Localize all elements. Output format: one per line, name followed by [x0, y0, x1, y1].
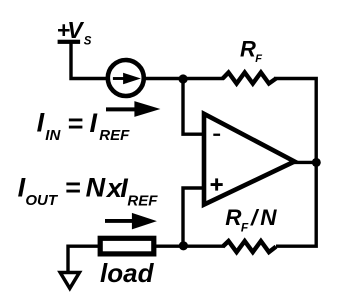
- wire: noninverting input to node B: [183, 188, 204, 246]
- wire: RF to right column corner: [274, 79, 316, 163]
- svg-text:I: I: [18, 173, 26, 203]
- op-amp plus sign: [211, 178, 223, 190]
- svg-text:REF: REF: [99, 127, 130, 144]
- svg-text:I: I: [37, 108, 45, 138]
- svg-text:N: N: [86, 172, 106, 202]
- resistor RF/N: [223, 241, 276, 252]
- +Vs supply bar: [58, 40, 81, 44]
- IOUT current arrow: [105, 213, 157, 230]
- wire: node A down to inverting input: [183, 79, 204, 135]
- node B junction dot: [179, 241, 188, 250]
- svg-text:REF: REF: [127, 192, 158, 209]
- node A junction dot: [179, 74, 188, 83]
- RF label: [240, 37, 262, 65]
- svg-text:R: R: [240, 37, 256, 62]
- IIN label: [37, 108, 131, 145]
- op-amp U1: [204, 114, 295, 205]
- svg-text:V: V: [67, 17, 84, 43]
- wire: Vs bar down and right to current source: [71, 43, 110, 79]
- output node junction dot: [312, 158, 321, 167]
- svg-text:IN: IN: [45, 127, 61, 144]
- svg-text:F: F: [241, 221, 249, 235]
- svg-text:load: load: [100, 258, 155, 288]
- op-amp minus sign: [213, 134, 220, 136]
- ground symbol: [60, 273, 79, 289]
- RF/N label: [225, 205, 277, 235]
- svg-text:OUT: OUT: [25, 192, 59, 209]
- svg-text:F: F: [255, 53, 262, 65]
- op-amp output wire: [294, 161, 318, 164]
- svg-text:I: I: [90, 108, 98, 138]
- current source I1: [108, 60, 144, 96]
- svg-text:R: R: [225, 205, 242, 230]
- IOUT label: [18, 172, 159, 209]
- svg-text:S: S: [84, 36, 92, 48]
- bottom wire: load to resistor RF/N: [154, 244, 224, 247]
- svg-text:=: =: [67, 108, 83, 138]
- wire: current source to resistor RF: [142, 77, 224, 80]
- svg-text:=: =: [65, 173, 81, 203]
- IIN current arrow: [106, 101, 160, 117]
- wire: right column down to RF/N: [276, 162, 316, 246]
- load box: [100, 238, 154, 254]
- +Vs supply label: [57, 17, 92, 48]
- resistor RF: [223, 73, 276, 84]
- svg-text:N: N: [260, 205, 277, 230]
- wire: load left to ground: [68, 246, 101, 271]
